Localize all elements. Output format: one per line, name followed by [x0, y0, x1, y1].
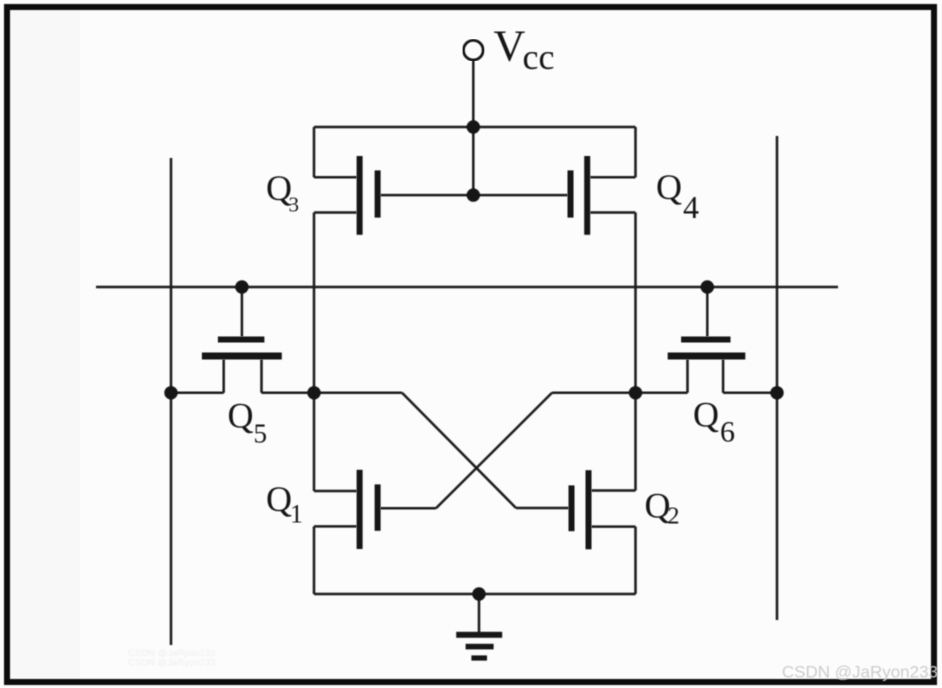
wire: word line	[96, 286, 838, 289]
svg-text:Q: Q	[656, 167, 682, 207]
svg-text:CSDN @JaRyon233: CSDN @JaRyon233	[128, 658, 215, 669]
wire: Q6 source drop	[686, 360, 689, 393]
transistor Q4 channel bar	[584, 156, 590, 235]
svg-text:5: 5	[254, 419, 268, 449]
wire: Q4 drain lead	[590, 211, 635, 214]
wire: top supply rail	[314, 126, 636, 129]
transistor Q1 gate bar	[375, 484, 381, 530]
junction dot ground tap	[472, 587, 485, 600]
wire: Q1 gate lead	[381, 507, 436, 510]
svg-text:3: 3	[289, 193, 300, 217]
wire: node row left node stub to diagonal	[314, 392, 402, 395]
wire: Q3 source lead	[314, 176, 357, 179]
svg-text:6: 6	[720, 416, 735, 449]
transistor Q5 channel bar	[202, 353, 282, 360]
ground bar 3	[471, 655, 487, 660]
transistor Q6 channel bar	[668, 353, 746, 360]
wire: left bit line	[170, 158, 173, 645]
wire: ground stem	[478, 594, 481, 634]
wire: Vcc lead vertical	[472, 60, 475, 196]
junction dot Vcc/top rail	[467, 120, 480, 133]
transistor Q6 gate bar	[681, 337, 730, 343]
wire: Q1 drain lead	[314, 490, 357, 493]
wire: Q2 drain lead	[592, 489, 636, 492]
svg-text:Q: Q	[228, 396, 254, 436]
junction dot word line / Q5 gate	[235, 280, 248, 293]
wire: Q4 source lead	[590, 176, 635, 179]
wire: bottom rail	[314, 593, 636, 596]
svg-text:1: 1	[290, 500, 303, 529]
wire: Q2 source lead	[592, 525, 636, 528]
transistor Q5 gate bar	[218, 337, 265, 343]
svg-text:2: 2	[668, 504, 680, 530]
ghost watermark bottom-left	[128, 648, 215, 669]
svg-text:cc: cc	[523, 37, 555, 77]
ground bar 1	[456, 632, 502, 638]
junction dot right bit line node	[770, 386, 783, 399]
junction dot word line / Q6 gate	[701, 280, 714, 293]
transistor Q4 gate bar	[568, 170, 574, 217]
svg-text:Q: Q	[693, 395, 719, 435]
transistor Q3 gate bar	[375, 170, 381, 217]
transistor Q3 channel bar	[357, 156, 363, 235]
wire: Q5 source drop	[222, 360, 225, 393]
wire: Q3 gate lead	[381, 194, 474, 197]
Vcc terminal circle	[464, 40, 484, 60]
wire: node row right node to Q6	[636, 392, 688, 395]
transistor Q2 gate bar	[569, 485, 575, 531]
transistor Q2 channel bar	[586, 470, 592, 549]
wire: right column vertical segments	[634, 127, 637, 177]
wire: Q5 gate lead vertical	[241, 287, 244, 337]
transistor Q1 channel bar	[357, 470, 363, 549]
wire: left column vertical segments	[313, 127, 316, 177]
wire: Q2 gate lead	[516, 507, 569, 510]
wire: cross-couple diagonal left-node to Q2 gate	[402, 393, 516, 508]
wire: cross-couple diagonal right-node to Q1 gate	[436, 393, 552, 509]
wire: Q6 gate lead vertical	[706, 287, 709, 337]
wire: Q1 source lead	[314, 525, 357, 528]
wire: node row Q5 to left node	[262, 392, 315, 395]
junction dot right internal node	[629, 386, 642, 399]
ground bar 2	[466, 644, 494, 650]
wire: Q3 drain lead	[314, 211, 357, 214]
wire: node row Q6 to right bitline	[723, 392, 777, 395]
wire: Q4 gate lead	[473, 194, 567, 197]
wire: Q5 drain drop	[260, 360, 263, 393]
svg-text:CSDN @JaRyon233: CSDN @JaRyon233	[782, 663, 938, 682]
wire: node row left bitline to Q5	[171, 392, 224, 395]
svg-text:V: V	[494, 22, 526, 71]
wire: right bit line	[776, 136, 779, 620]
svg-text:4: 4	[683, 189, 699, 225]
svg-text:Q: Q	[266, 479, 292, 519]
junction dot left bit line node	[164, 386, 177, 399]
junction dot left internal node	[307, 386, 320, 399]
wire: Q6 drain drop	[722, 360, 725, 393]
junction dot PMOS gate node	[467, 188, 480, 201]
wire: node row diagonal stub to right node	[552, 392, 636, 395]
